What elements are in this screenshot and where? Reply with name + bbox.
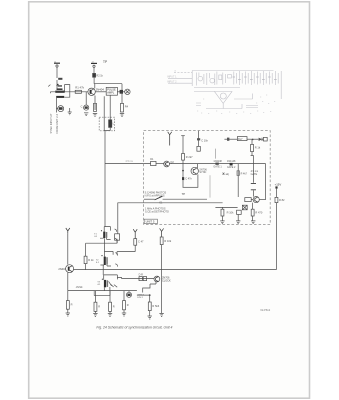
wire main bus xyxy=(104,131,106,227)
wire stage3 to Q10 xyxy=(122,278,154,280)
unit label xyxy=(144,219,157,223)
svg-text:GATE 1: GATE 1 xyxy=(213,166,222,169)
resistor R13 xyxy=(66,291,72,310)
svg-text:SYNC: SYNC xyxy=(199,171,206,174)
pulse transformer T1 xyxy=(94,227,116,241)
wire xyxy=(56,80,58,90)
annotation text block 2 xyxy=(145,207,169,213)
wire xyxy=(56,98,57,113)
component D1 xyxy=(150,158,156,165)
wire bottom long rail xyxy=(74,269,277,271)
transistor Q1 xyxy=(88,87,104,95)
svg-text:R 4k7: R 4k7 xyxy=(241,172,248,175)
diode D6 cluster xyxy=(223,160,236,176)
transistor Q10 xyxy=(150,276,171,287)
component L2 xyxy=(109,120,115,128)
wire twin verticals xyxy=(104,95,110,130)
faint block outline xyxy=(192,71,281,100)
component box B1 xyxy=(232,137,247,141)
faint triangle xyxy=(215,92,233,104)
ground xyxy=(236,215,240,224)
wire stage1 emitter xyxy=(116,239,118,243)
svg-text:R 82: R 82 xyxy=(279,198,285,202)
ground xyxy=(120,114,124,117)
svg-text:INPUT 1: INPUT 1 xyxy=(167,76,177,79)
dashed unit boxlet xyxy=(99,117,114,131)
svg-text:DIV 2: DIV 2 xyxy=(137,297,143,299)
terminal T2 xyxy=(91,61,97,73)
wire xyxy=(247,138,258,140)
svg-text:TP: TP xyxy=(182,192,186,196)
pulse transformer T3 xyxy=(97,275,117,291)
svg-text:R 10k: R 10k xyxy=(164,239,171,243)
faint speckle dots xyxy=(197,95,275,114)
component D5 pair xyxy=(139,273,147,280)
diode D2 cluster xyxy=(213,160,222,169)
svg-text:R 470: R 470 xyxy=(255,211,262,215)
resistor R2 xyxy=(93,73,104,77)
wire main line xyxy=(50,91,88,93)
resistor R7 xyxy=(221,207,234,221)
terminal T1 xyxy=(54,61,60,78)
ground xyxy=(148,311,152,319)
svg-text:1N4148: 1N4148 xyxy=(227,160,236,163)
wire verticals to grounds xyxy=(238,155,253,197)
transistor Q2 xyxy=(156,161,174,167)
svg-text:R2 1k: R2 1k xyxy=(96,74,103,77)
wire xyxy=(215,206,237,208)
svg-text:adj: adj xyxy=(226,173,230,176)
wire xyxy=(95,91,106,93)
wire faint xyxy=(215,149,217,159)
wire exit left xyxy=(118,203,223,234)
resistor R15 xyxy=(109,291,115,312)
resistor R6 xyxy=(251,139,261,155)
resistor R4 xyxy=(121,92,129,112)
node arrow xyxy=(48,85,50,87)
svg-text:-8V/2k: -8V/2k xyxy=(76,286,84,289)
svg-text:FROM UNIT 2-4: FROM UNIT 2-4 xyxy=(55,113,59,133)
svg-text:62-P612: 62-P612 xyxy=(260,308,270,312)
svg-text:INPUT 2: INPUT 2 xyxy=(167,80,177,83)
component C6 xyxy=(237,210,242,214)
label L1 xyxy=(58,78,62,80)
svg-text:D R: D R xyxy=(139,273,144,276)
svg-text:SYNC INPUT AT: SYNC INPUT AT xyxy=(49,113,53,133)
svg-text:C 47n: C 47n xyxy=(185,178,192,181)
ground xyxy=(66,309,70,316)
wire stage3 sub-loop xyxy=(94,291,110,296)
test point TP4 xyxy=(66,228,70,233)
svg-text:R1 47k: R1 47k xyxy=(75,86,84,90)
svg-text:1N4148: 1N4148 xyxy=(213,160,222,163)
wire emitter to resistor xyxy=(85,264,87,270)
svg-text:S.CE at DET/PHOTO: S.CE at DET/PHOTO xyxy=(145,211,169,214)
transformer T primary xyxy=(55,85,64,93)
svg-text:Fig. 24 Schematic of synchron: Fig. 24 Schematic of synchronization cir… xyxy=(96,326,172,330)
ground xyxy=(68,108,72,115)
svg-text:CLOCK: CLOCK xyxy=(162,279,171,282)
wire interstage xyxy=(103,238,105,251)
svg-text:R: R xyxy=(71,303,73,307)
ground xyxy=(93,311,97,316)
annotation text block 1 xyxy=(145,192,167,198)
component U1 box xyxy=(106,87,117,95)
svg-text:UNIT 5: UNIT 5 xyxy=(146,220,155,224)
svg-text:R 10k: R 10k xyxy=(227,211,234,215)
component B4 network xyxy=(137,287,151,299)
component B3 xyxy=(115,234,120,240)
resistor R3 xyxy=(94,96,97,112)
svg-text:C 10n: C 10n xyxy=(201,139,208,143)
svg-text:R 2k7: R 2k7 xyxy=(186,155,193,159)
faint comp row right xyxy=(234,71,278,85)
capacitor C4 xyxy=(197,131,209,151)
svg-text:TP: TP xyxy=(103,60,107,64)
svg-text:R 5k6: R 5k6 xyxy=(152,304,159,308)
svg-text:R: R xyxy=(127,303,129,307)
resistor R17 xyxy=(148,295,159,311)
component D4 xyxy=(245,198,253,202)
svg-text:R 1k: R 1k xyxy=(88,258,94,262)
supply +15V xyxy=(275,182,282,197)
transistor Q6 xyxy=(58,265,73,273)
svg-text:R: R xyxy=(98,304,100,308)
svg-text:C: C xyxy=(81,105,83,108)
resistor R10 xyxy=(84,243,94,263)
switch S1 xyxy=(144,196,207,204)
wire stage3 output xyxy=(117,277,121,278)
dashed unit box xyxy=(144,131,271,225)
resistor R11 xyxy=(117,239,144,255)
svg-text:C 47: C 47 xyxy=(138,240,144,244)
ground xyxy=(84,113,88,116)
svg-text:DLY: DLY xyxy=(238,138,243,141)
svg-text:R: R xyxy=(113,304,115,308)
faint left transistors xyxy=(198,76,203,81)
wire tap to box xyxy=(105,163,150,165)
svg-text:R4: R4 xyxy=(125,105,129,109)
wire xyxy=(67,273,69,291)
wire xyxy=(170,164,266,200)
diode D3 xyxy=(259,138,262,141)
svg-text:2N404: 2N404 xyxy=(58,267,66,271)
pulse transformer T2 xyxy=(96,251,118,266)
connector J1 xyxy=(125,89,130,94)
ground xyxy=(220,221,224,224)
wire interstage 2 xyxy=(102,265,104,275)
ground xyxy=(159,313,163,316)
transformer T secondary xyxy=(56,96,64,98)
faint wire rows xyxy=(194,88,240,92)
svg-text:+15V: +15V xyxy=(275,182,282,186)
svg-text:2N404: 2N404 xyxy=(96,87,105,91)
wire xyxy=(86,242,117,244)
wire right rail xyxy=(275,203,277,270)
svg-text:GATE 2: GATE 2 xyxy=(227,166,236,169)
transistor Q3 xyxy=(191,164,207,188)
component B2 xyxy=(262,137,267,141)
transistor Q5 xyxy=(253,197,266,203)
resistor R9 xyxy=(275,197,285,202)
resistor R5 xyxy=(181,136,198,188)
wire collector rail xyxy=(94,77,122,90)
wire bypass loop xyxy=(64,85,69,98)
chain row: capacitor C5 xyxy=(224,138,232,141)
svg-text:4.5 ms: 4.5 ms xyxy=(125,160,133,163)
ground xyxy=(122,310,126,316)
svg-text:R 1k: R 1k xyxy=(255,145,261,149)
wire bottom left rail xyxy=(68,290,137,292)
faint dash-dot lead xyxy=(174,71,192,73)
svg-text:GATE: GATE xyxy=(251,173,258,176)
faint lower wires xyxy=(206,94,253,109)
test point TP6 xyxy=(160,228,164,237)
faint input wires xyxy=(168,79,192,84)
resistor R12 xyxy=(160,237,172,313)
capacitor C7 round xyxy=(127,291,132,298)
ground xyxy=(108,311,112,316)
ground xyxy=(93,114,97,117)
crystal Y1 xyxy=(242,205,247,210)
test point TP2 xyxy=(168,132,172,146)
node dot xyxy=(252,139,254,141)
capacitor C3 xyxy=(81,92,89,110)
ground xyxy=(251,216,255,224)
svg-text:AMPL: AMPL xyxy=(107,91,115,95)
test point TP5 xyxy=(133,229,137,238)
resistor R8 xyxy=(251,203,263,216)
capacitor C1 xyxy=(58,106,64,112)
wire faint drop xyxy=(209,175,211,197)
resistor R14 xyxy=(94,291,100,312)
wire xyxy=(67,233,69,264)
capacitor C2 xyxy=(117,90,124,94)
resistor R16 xyxy=(123,291,129,310)
resistor R1 xyxy=(75,86,84,94)
